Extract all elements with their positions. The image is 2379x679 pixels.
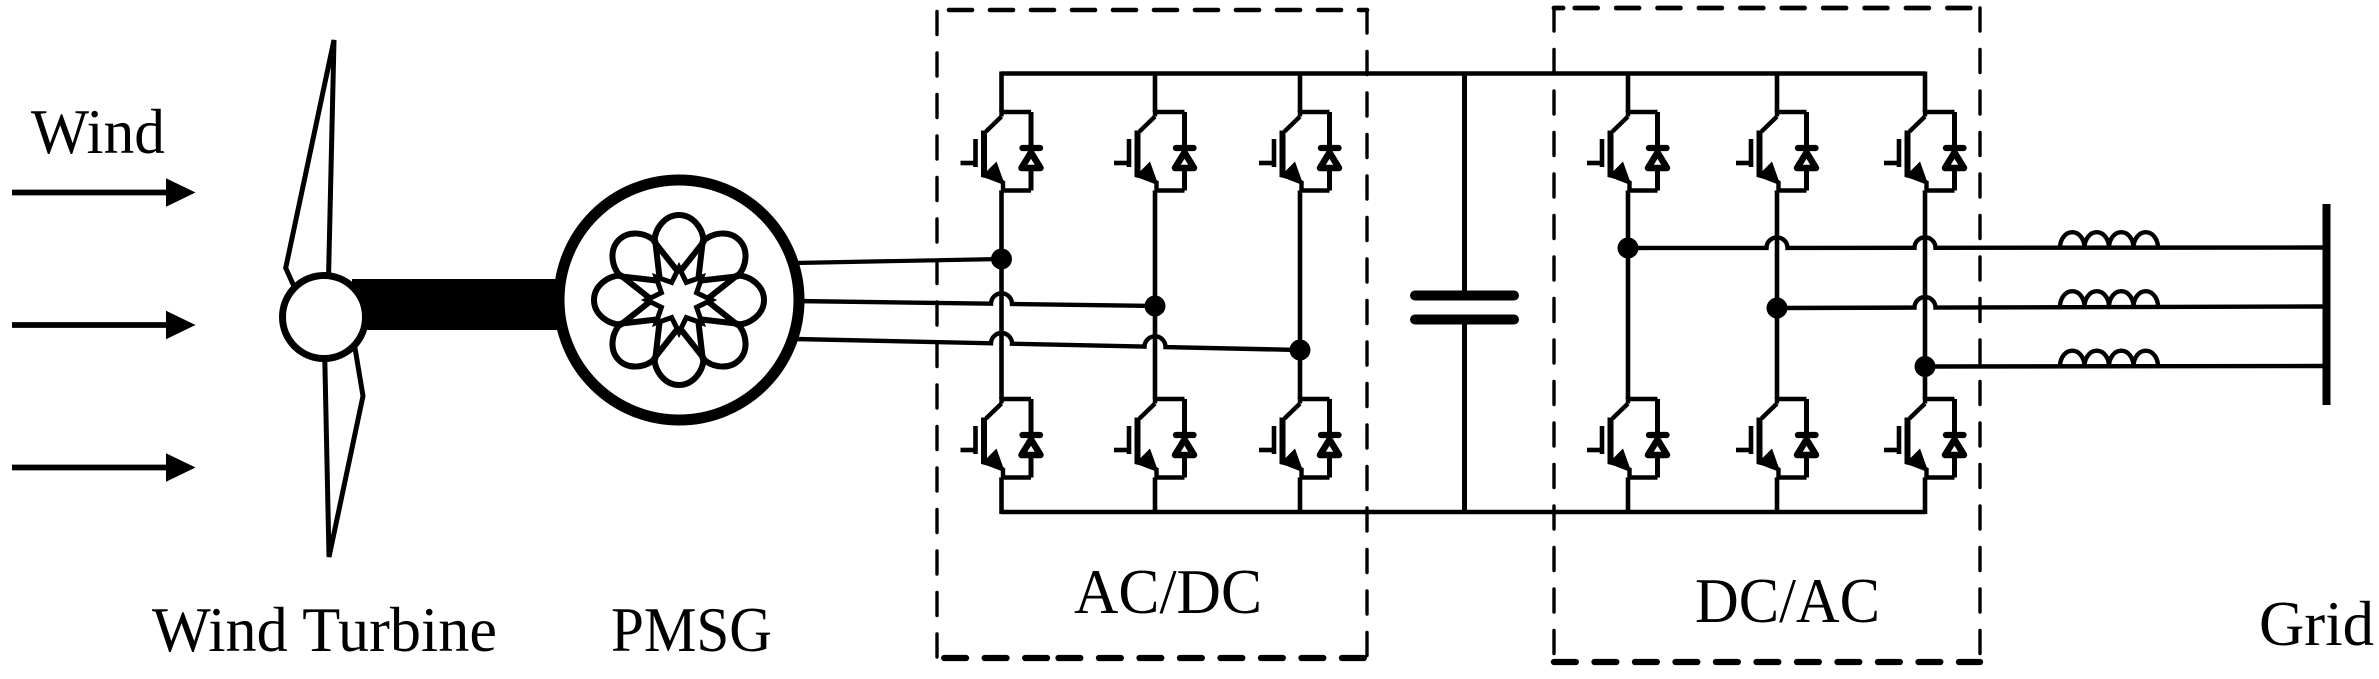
DC/AC box left edge: [1552, 8, 1555, 662]
IGBT S1 (upper, rectifier leg 1): [961, 110, 1041, 192]
wire: rectifier leg 3 upper segment: [1298, 72, 1303, 113]
wire: inverter phase C to grid: [1925, 364, 2323, 369]
wire: inverter leg 2 lower segment: [1775, 478, 1780, 515]
wire: inverter leg 1 lower segment: [1626, 478, 1631, 515]
IGBT S7 (upper, inverter leg 1): [1587, 110, 1667, 192]
wire: rectifier leg 2 middle segment: [1153, 191, 1158, 400]
inductor L2: [2060, 291, 2158, 307]
AC/DC box left edge: [935, 12, 938, 659]
turbine hub: [283, 276, 366, 359]
DC/AC box bottom edge: [1554, 659, 1980, 665]
DC positive bus (top): [1001, 71, 1925, 76]
wire: rectifier leg 2 lower segment: [1153, 478, 1158, 515]
PMSG generator outer circle: [559, 180, 799, 420]
svg-text:Wind Turbine: Wind Turbine: [152, 594, 497, 665]
wire: inverter phase A to grid (jumps over legs 2,3): [1628, 237, 2323, 248]
wire: inverter leg 1 upper segment: [1626, 72, 1631, 113]
capacitor C: top lead: [1462, 74, 1467, 291]
IGBT S3 (upper, rectifier leg 2): [1114, 110, 1194, 192]
wire: rectifier leg 1 middle segment: [999, 191, 1004, 400]
wind arrow 1: [12, 178, 196, 206]
PMSG rotor flower (8 petals): [594, 215, 764, 385]
svg-text:PMSG: PMSG: [611, 594, 772, 665]
wire: rectifier leg 3 lower segment: [1298, 478, 1303, 515]
turbine shaft: [352, 279, 570, 330]
wire: rectifier leg 1 lower segment: [999, 478, 1004, 515]
grid bus bar: [2323, 204, 2331, 405]
DC/AC box top edge: [1575, 6, 1980, 11]
svg-text:DC/AC: DC/AC: [1695, 565, 1880, 636]
AC/DC box right edge: [1365, 10, 1368, 658]
node: inverter phase C junction: [1915, 356, 1936, 377]
wire: inverter leg 3 lower segment: [1923, 478, 1928, 515]
wind arrow 2: [12, 311, 196, 339]
DC/AC box top edge left stub: [1554, 6, 1563, 11]
wire: PMSG phase c to rectifier leg 3 (jumps over legs 1,2): [795, 333, 1300, 350]
wire: inverter phase B to grid (jump over leg 3): [1777, 297, 2323, 308]
capacitor C: bottom plate: [1415, 315, 1514, 325]
node: inverter phase A junction: [1618, 238, 1639, 259]
AC/DC box bottom edge: [1059, 655, 1368, 661]
inductor L3: [2060, 351, 2158, 367]
IGBT S12 (lower, inverter leg 3): [1884, 397, 1964, 479]
IGBT S4 (lower, rectifier leg 2): [1114, 397, 1194, 479]
svg-text:Wind: Wind: [31, 96, 165, 167]
wind turbine upper blade: [286, 40, 334, 304]
IGBT S5 (upper, rectifier leg 3): [1259, 110, 1339, 192]
IGBT S9 (upper, inverter leg 2): [1736, 110, 1816, 192]
svg-text:Grid: Grid: [2259, 588, 2374, 659]
wire: rectifier leg 3 middle segment: [1298, 191, 1303, 400]
svg-text:AC/DC: AC/DC: [1074, 556, 1262, 627]
wind arrow 3: [12, 453, 196, 481]
wire: inverter leg 3 middle segment: [1923, 191, 1928, 400]
capacitor C: top plate: [1415, 291, 1514, 301]
PMSG center star (8-pointed): [647, 268, 712, 333]
wire: PMSG phase b to rectifier leg 2 (jump over leg 1): [795, 293, 1155, 306]
wire: rectifier leg 1 upper segment: [999, 72, 1004, 113]
DC/AC box right edge: [1978, 8, 1981, 662]
AC/DC box bottom edge left part: [937, 655, 1047, 661]
capacitor C: bottom lead: [1462, 324, 1467, 512]
wire: inverter leg 1 middle segment: [1626, 191, 1631, 400]
AC/DC box top edge: [949, 8, 1367, 13]
wind turbine lower blade: [325, 342, 364, 557]
wire: inverter leg 3 upper segment: [1923, 72, 1928, 113]
node: phase b junction: [1145, 296, 1166, 317]
wire: PMSG phase a to rectifier leg 1: [795, 259, 1002, 263]
node: inverter phase B junction: [1767, 298, 1788, 319]
wire: inverter leg 2 upper segment: [1775, 72, 1780, 113]
wire: rectifier leg 2 upper segment: [1153, 72, 1158, 113]
DC negative bus (bottom): [1001, 510, 1925, 515]
IGBT S10 (lower, inverter leg 2): [1736, 397, 1816, 479]
IGBT S11 (upper, inverter leg 3): [1884, 110, 1964, 192]
inductor L1: [2060, 232, 2158, 248]
node: phase a junction: [991, 249, 1012, 270]
node: phase c junction: [1290, 340, 1311, 361]
IGBT S2 (lower, rectifier leg 1): [961, 397, 1041, 479]
IGBT S6 (lower, rectifier leg 3): [1259, 397, 1339, 479]
IGBT S8 (lower, inverter leg 1): [1587, 397, 1667, 479]
wire: inverter leg 2 middle segment: [1775, 191, 1780, 400]
